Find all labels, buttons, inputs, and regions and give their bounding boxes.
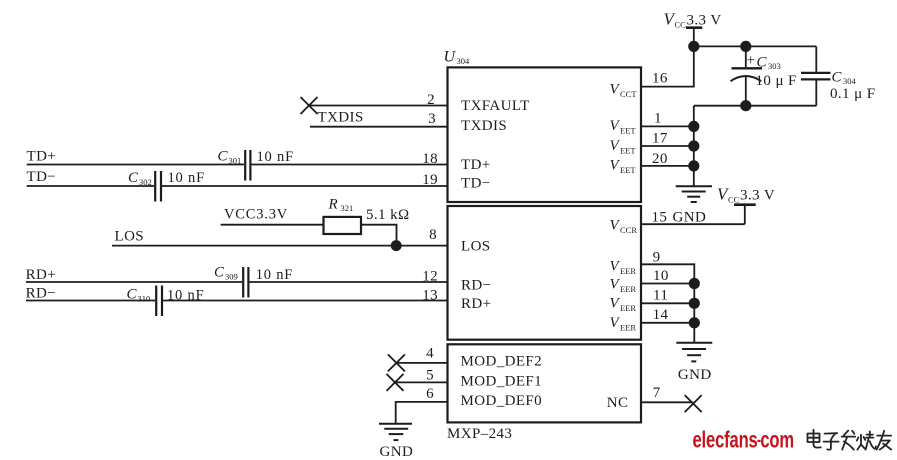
junction pin 10	[689, 278, 700, 289]
svg-text:10 μ F: 10 μ F	[756, 73, 797, 89]
ground symbol (VEET)	[676, 186, 712, 202]
capacitor C304	[801, 73, 831, 80]
svg-text:R: R	[328, 197, 338, 213]
no-connect X on pin 2	[301, 97, 318, 114]
svg-text:V: V	[610, 81, 621, 97]
wire pin 10 VEER	[641, 283, 694, 285]
wire VEET vertical to ground	[693, 106, 695, 186]
pin name VEET pin1	[610, 118, 637, 136]
wire pin 4 MOD_DEF2	[396, 362, 448, 364]
power symbol VCC 3.3V (top)	[686, 28, 702, 47]
svg-text:NC: NC	[607, 395, 629, 411]
svg-text:RD−: RD−	[26, 286, 56, 302]
svg-text:CCR: CCR	[620, 225, 637, 235]
svg-text:MXP–243: MXP–243	[447, 426, 512, 442]
capacitor C310	[156, 286, 162, 317]
wire pin 9 VEER	[641, 264, 694, 342]
svg-text:10 nF: 10 nF	[168, 170, 205, 186]
svg-text:11: 11	[653, 288, 668, 304]
junction bottom rail / C303	[740, 100, 751, 111]
resistor R321	[324, 217, 362, 234]
wire pin 17 VEET	[641, 145, 694, 147]
wire pin 13 RD-	[163, 300, 448, 302]
svg-text:V: V	[610, 218, 621, 234]
capacitor C309	[243, 267, 248, 298]
wire pin 1 VEET	[641, 125, 694, 127]
svg-text:EET: EET	[620, 126, 636, 136]
ground symbol (MOD_DEF0)	[379, 424, 412, 440]
svg-text:304: 304	[457, 56, 471, 66]
svg-text:13: 13	[422, 288, 438, 304]
wire pin 14 VEER	[641, 322, 694, 324]
svg-text:+: +	[747, 53, 756, 69]
svg-text:301: 301	[229, 155, 242, 165]
svg-text:V: V	[610, 158, 621, 174]
wire TD+ left of C301	[27, 164, 244, 166]
svg-text:302: 302	[139, 177, 152, 187]
junction pin 17	[688, 140, 699, 151]
svg-text:309: 309	[225, 271, 238, 281]
capacitor C301	[245, 150, 250, 181]
svg-text:MOD_DEF1: MOD_DEF1	[461, 373, 543, 389]
wire C304 branch lower	[815, 81, 817, 106]
svg-text:CC: CC	[675, 19, 687, 29]
svg-text:RD+: RD+	[26, 267, 56, 283]
no-connect X on pin 7	[685, 395, 702, 412]
pin name VEET pin17	[610, 138, 637, 156]
svg-text:4: 4	[426, 346, 434, 362]
svg-text:6: 6	[426, 386, 434, 402]
pin name VCCR	[610, 218, 638, 236]
no-connect X on pin 5	[387, 374, 404, 391]
svg-text:MOD_DEF2: MOD_DEF2	[461, 354, 543, 370]
svg-text:V: V	[610, 315, 621, 331]
svg-text:CC: CC	[728, 195, 740, 205]
IC U304 transmit section box	[448, 67, 642, 202]
svg-text:3: 3	[428, 111, 436, 127]
svg-text:C: C	[127, 287, 138, 303]
wire pin 20 VEET	[641, 165, 694, 167]
svg-text:RD+: RD+	[461, 296, 492, 312]
svg-text:V: V	[610, 118, 621, 134]
junction pin 14	[689, 317, 700, 328]
svg-text:EET: EET	[620, 145, 636, 155]
svg-text:C: C	[832, 69, 843, 85]
no-connect X on pin 4	[388, 354, 405, 371]
net label Vcc3.3 V (top)	[664, 9, 722, 29]
pin name VEER pin14	[610, 315, 637, 333]
wire pin 8 LOS	[112, 245, 448, 247]
svg-text:C: C	[757, 54, 768, 70]
designator C304	[832, 69, 857, 86]
power symbol VCC 3.3V (mid)	[734, 205, 756, 225]
wire pin 6 MOD_DEF0 to ground	[396, 402, 448, 423]
designator C309	[214, 265, 238, 282]
svg-text:8: 8	[429, 227, 437, 243]
wire TD- left of C302	[27, 185, 154, 187]
svg-text:10: 10	[653, 268, 669, 284]
wire pin 3 TXDIS	[310, 126, 448, 128]
svg-text:TD−: TD−	[27, 169, 57, 185]
pin name VEET pin20	[610, 158, 637, 176]
junction Vcc rail / pin 16	[688, 41, 699, 52]
svg-text:GND: GND	[380, 444, 414, 460]
capacitor C303 (polarized 10uF)	[731, 46, 763, 105]
designator R321	[328, 197, 354, 214]
svg-text:V: V	[610, 258, 621, 274]
watermark Chinese characters (drawn strokes)	[808, 430, 892, 450]
pin name VEER pin10	[610, 277, 637, 295]
junction pin 1	[688, 121, 699, 132]
wire pin 7 NC	[641, 401, 693, 403]
wire cap bottom rail	[694, 105, 817, 107]
svg-text:TXDIS: TXDIS	[318, 110, 364, 126]
svg-text:15: 15	[652, 210, 668, 226]
designator C302	[128, 170, 152, 187]
svg-text:EER: EER	[620, 323, 636, 333]
svg-text:EET: EET	[620, 165, 636, 175]
svg-text:U: U	[444, 49, 457, 66]
ref designator U304	[444, 49, 471, 67]
wire C304 branch upper	[815, 46, 817, 71]
net label Vcc3.3 V (mid)	[717, 185, 775, 205]
wire pin 18 TD+	[252, 164, 449, 166]
svg-text:19: 19	[422, 172, 438, 188]
junction pin 20	[688, 160, 699, 171]
designator +C303	[747, 53, 781, 71]
wire pin 16 VCCT	[641, 46, 694, 86]
svg-text:EER: EER	[620, 284, 636, 294]
svg-text:12: 12	[422, 269, 438, 285]
svg-text:10 nF: 10 nF	[256, 267, 293, 283]
svg-text:20: 20	[652, 151, 668, 167]
svg-text:17: 17	[652, 131, 668, 147]
svg-text:C: C	[218, 149, 229, 165]
svg-text:16: 16	[652, 71, 668, 87]
junction node R321/LOS	[391, 240, 402, 251]
svg-text:10 nF: 10 nF	[257, 149, 294, 165]
svg-text:18: 18	[422, 151, 438, 167]
wire RD- left of C310	[26, 300, 155, 302]
svg-text:TD+: TD+	[27, 148, 57, 164]
designator C301	[218, 149, 242, 166]
svg-text:TXDIS: TXDIS	[461, 118, 507, 134]
svg-text:304: 304	[843, 76, 857, 86]
svg-text:LOS: LOS	[115, 229, 145, 245]
pin name VEER pin11	[610, 296, 637, 314]
pin name VCCT	[610, 81, 638, 99]
svg-text:7: 7	[653, 385, 661, 401]
svg-text:elecfans-com: elecfans-com	[693, 428, 794, 453]
svg-text:V: V	[610, 296, 621, 312]
svg-text:2: 2	[427, 92, 435, 108]
wire R321 to LOS node	[361, 225, 397, 246]
svg-text:3.3 V: 3.3 V	[687, 12, 722, 28]
svg-text:LOS: LOS	[461, 238, 491, 254]
wire pin 19 TD-	[162, 185, 448, 187]
svg-text:14: 14	[653, 307, 669, 323]
junction pin 11	[689, 298, 700, 309]
ground symbol (VEER)	[676, 343, 712, 362]
pin name VEER pin9	[610, 258, 637, 276]
svg-text:1: 1	[654, 111, 662, 127]
wire RD+ left of C309	[26, 281, 242, 283]
wire pin 12 RD+	[250, 281, 449, 283]
wire pin 11 VEER	[641, 302, 694, 304]
svg-text:V: V	[610, 277, 621, 293]
svg-text:9: 9	[653, 250, 661, 266]
capacitor C302	[155, 171, 161, 202]
svg-text:310: 310	[138, 293, 151, 303]
svg-text:MOD_DEF0: MOD_DEF0	[461, 393, 543, 409]
svg-text:TXFAULT: TXFAULT	[461, 98, 530, 114]
svg-text:EER: EER	[620, 303, 636, 313]
svg-text:5: 5	[426, 368, 434, 384]
svg-text:321: 321	[341, 203, 354, 213]
svg-text:V: V	[610, 138, 621, 154]
IC U304 mod-def section box	[448, 344, 642, 422]
svg-text:C: C	[214, 265, 225, 281]
wire pin 5 MOD_DEF1	[395, 381, 448, 383]
svg-text:TD−: TD−	[461, 175, 491, 191]
svg-text:303: 303	[768, 61, 781, 71]
wire pin 15 to Vcc	[641, 223, 745, 225]
svg-text:VCC3.3V: VCC3.3V	[224, 207, 288, 223]
svg-text:0.1 μ F: 0.1 μ F	[830, 86, 875, 102]
svg-text:C: C	[128, 170, 139, 186]
wire VCC3.3V to R321	[221, 224, 324, 226]
wire Vcc rail (top)	[694, 45, 817, 47]
svg-text:5.1 kΩ: 5.1 kΩ	[366, 207, 410, 223]
svg-text:EER: EER	[620, 266, 636, 276]
junction Vcc rail / C303	[740, 41, 751, 52]
svg-text:TD+: TD+	[461, 157, 491, 173]
svg-text:GND: GND	[678, 367, 712, 383]
svg-text:GND: GND	[673, 210, 707, 226]
svg-text:3.3 V: 3.3 V	[740, 188, 775, 204]
svg-text:CCT: CCT	[620, 89, 637, 99]
svg-text:RD−: RD−	[461, 277, 492, 293]
wire pin 2 TXFAULT	[309, 105, 448, 107]
IC U304 receive section box	[448, 206, 642, 340]
designator C310	[127, 287, 151, 304]
